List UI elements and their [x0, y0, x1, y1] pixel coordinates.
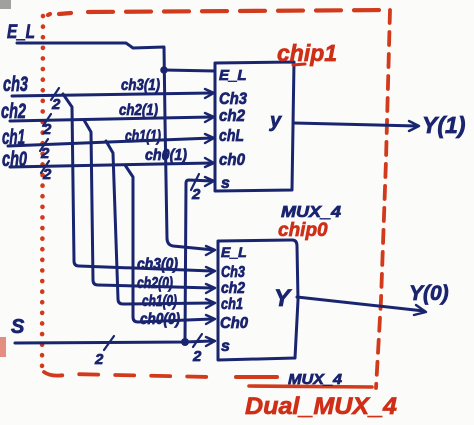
svg-text:ch0(1): ch0(1) [145, 147, 187, 164]
svg-text:ch2: ch2 [1, 100, 26, 123]
svg-text:ch2: ch2 [219, 106, 245, 125]
svg-text:E_L: E_L [7, 22, 35, 43]
svg-text:2: 2 [191, 186, 201, 203]
svg-text:ch2: ch2 [221, 280, 245, 297]
svg-text:chL: chL [219, 126, 244, 145]
svg-text:chip0: chip0 [278, 220, 328, 241]
svg-text:MUX_4: MUX_4 [288, 371, 343, 388]
svg-text:Y: Y [274, 285, 292, 312]
svg-text:2: 2 [51, 96, 61, 113]
svg-text:ch1: ch1 [2, 126, 25, 149]
svg-text:2: 2 [40, 145, 50, 162]
svg-text:2: 2 [94, 351, 104, 368]
svg-text:Y(1): Y(1) [422, 112, 465, 138]
svg-text:chip1: chip1 [277, 40, 337, 66]
svg-text:Dual_MUX_4: Dual_MUX_4 [245, 393, 397, 420]
svg-text:ch3(0): ch3(0) [137, 256, 178, 273]
svg-text:ch1(0): ch1(0) [142, 293, 177, 310]
svg-text:2: 2 [192, 348, 202, 365]
svg-text:MUX_4: MUX_4 [281, 204, 341, 221]
svg-text:ch1: ch1 [221, 296, 243, 313]
svg-text:s: s [221, 338, 230, 355]
svg-text:ch2(0): ch2(0) [137, 275, 173, 292]
svg-text:Ch3: Ch3 [221, 264, 245, 281]
svg-text:ch3: ch3 [3, 73, 28, 96]
svg-text:ch0: ch0 [219, 150, 245, 169]
svg-text:ch3(1): ch3(1) [121, 77, 160, 94]
svg-text:s: s [221, 175, 230, 192]
svg-text:Y(0): Y(0) [409, 282, 449, 305]
svg-text:E_L: E_L [221, 244, 247, 260]
svg-text:Ch0: Ch0 [220, 315, 248, 332]
svg-text:y: y [269, 110, 282, 132]
svg-text:ch0: ch0 [2, 148, 27, 171]
svg-text:ch2(1): ch2(1) [119, 102, 158, 119]
svg-text:ch1(1): ch1(1) [125, 128, 161, 145]
svg-text:E_L: E_L [219, 67, 247, 84]
svg-text:ch0(0): ch0(0) [140, 311, 180, 328]
svg-text:2: 2 [42, 121, 52, 138]
svg-text:S: S [11, 316, 25, 338]
svg-text:2: 2 [42, 166, 52, 183]
